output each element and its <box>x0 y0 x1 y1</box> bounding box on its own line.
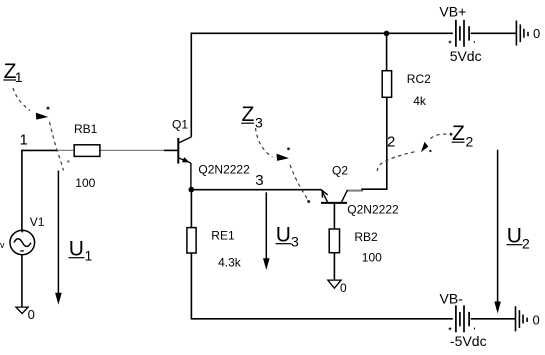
svg-text:1: 1 <box>85 248 93 264</box>
svg-text:3: 3 <box>291 234 299 250</box>
svg-text:VB+: VB+ <box>439 4 466 20</box>
svg-text:Q2N2222: Q2N2222 <box>347 203 399 217</box>
svg-text:2: 2 <box>387 134 395 151</box>
svg-text:Q2: Q2 <box>332 164 348 178</box>
svg-text:Q2N2222: Q2N2222 <box>198 163 250 177</box>
svg-text:2: 2 <box>522 236 530 252</box>
svg-text:0: 0 <box>28 307 35 322</box>
svg-text:U: U <box>276 224 291 247</box>
svg-text:RC2: RC2 <box>407 72 431 86</box>
svg-text:3: 3 <box>255 115 263 131</box>
svg-text:RE1: RE1 <box>211 229 235 243</box>
svg-text:1: 1 <box>15 69 23 85</box>
svg-text:V1: V1 <box>30 215 45 229</box>
svg-text:5Vdc: 5Vdc <box>450 48 482 64</box>
svg-text:0: 0 <box>340 281 347 295</box>
svg-text:2: 2 <box>466 134 474 150</box>
svg-text:Q1: Q1 <box>172 118 188 132</box>
svg-text:v: v <box>0 240 5 250</box>
svg-text:RB1: RB1 <box>74 122 98 136</box>
svg-text:100: 100 <box>75 176 95 190</box>
svg-text:0: 0 <box>533 313 540 328</box>
svg-text:VB-: VB- <box>440 291 464 307</box>
svg-text:U: U <box>507 225 522 248</box>
svg-text:0: 0 <box>533 26 540 41</box>
svg-text:4k: 4k <box>413 94 427 108</box>
svg-text:U: U <box>69 238 84 261</box>
svg-text:100: 100 <box>362 251 382 265</box>
svg-text:-5Vdc: -5Vdc <box>450 333 487 349</box>
svg-text:3: 3 <box>255 172 263 189</box>
svg-text:4.3k: 4.3k <box>218 256 242 270</box>
svg-text:1: 1 <box>20 131 28 148</box>
svg-text:RB2: RB2 <box>354 230 378 244</box>
